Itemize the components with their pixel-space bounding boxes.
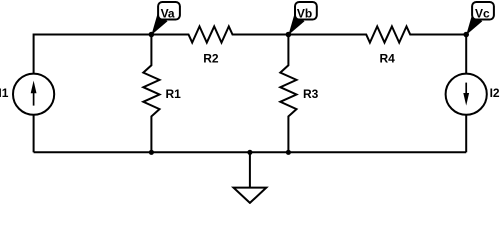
svg-text:I1: I1 xyxy=(0,86,9,100)
resistor R4 xyxy=(288,26,466,42)
resistor R3 xyxy=(280,35,296,153)
wire: I2 bottom lead down to bottom rail xyxy=(465,115,467,153)
svg-text:R3: R3 xyxy=(303,87,319,101)
node flag Vc xyxy=(466,2,494,35)
wire: left rail from I1 top up and right to node Va xyxy=(34,35,152,74)
svg-text:Vb: Vb xyxy=(297,6,312,20)
svg-text:R1: R1 xyxy=(166,87,182,101)
node flag Va xyxy=(151,2,180,35)
svg-text:R4: R4 xyxy=(380,52,396,66)
current source I2 xyxy=(446,74,487,115)
svg-text:I2: I2 xyxy=(490,86,500,100)
node flag Vb xyxy=(288,2,316,35)
junction dot: R3 bottom xyxy=(286,150,291,155)
junction dot: ground at bottom rail xyxy=(247,150,252,155)
junction dot: R1 bottom xyxy=(149,150,154,155)
current source I1 xyxy=(13,74,54,115)
wire: bottom rail xyxy=(34,151,467,153)
node dot Vb xyxy=(286,32,292,38)
ground xyxy=(234,152,267,203)
resistor R1 xyxy=(143,35,159,153)
wire: I1 bottom lead down to bottom rail xyxy=(33,115,35,153)
wire: node Vc down to I2 top xyxy=(465,35,467,74)
svg-text:Vc: Vc xyxy=(475,6,490,20)
svg-text:R2: R2 xyxy=(203,52,219,66)
svg-text:Va: Va xyxy=(161,6,175,20)
node dot Vc xyxy=(463,32,469,38)
resistor R2 xyxy=(151,26,288,42)
node dot Va xyxy=(149,32,155,38)
